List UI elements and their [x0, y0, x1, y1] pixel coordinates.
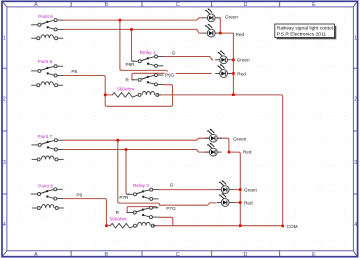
- svg-text:3: 3: [354, 160, 357, 166]
- svg-text:A: A: [34, 2, 38, 8]
- svg-text:P8: P8: [71, 69, 77, 74]
- svg-text:G: G: [170, 183, 174, 188]
- svg-text:C: C: [176, 252, 180, 258]
- svg-text:P6R: P6R: [125, 62, 135, 67]
- svg-text:D: D: [244, 2, 248, 8]
- svg-text:Relay 2: Relay 2: [133, 183, 149, 188]
- svg-text:E: E: [312, 252, 316, 258]
- svg-text:R: R: [126, 77, 130, 82]
- svg-text:E: E: [312, 2, 316, 8]
- svg-text:Green: Green: [233, 137, 246, 142]
- svg-text:4: 4: [3, 222, 6, 228]
- svg-text:Relay 1: Relay 1: [140, 50, 156, 55]
- svg-text:Red: Red: [237, 71, 246, 76]
- svg-text:1: 1: [3, 36, 6, 42]
- svg-text:P6G: P6G: [165, 72, 175, 77]
- svg-text:3: 3: [3, 160, 6, 166]
- svg-text:P7R: P7R: [119, 195, 129, 200]
- svg-text:1: 1: [354, 36, 357, 42]
- svg-text:B: B: [104, 2, 108, 8]
- svg-text:Green: Green: [237, 57, 250, 62]
- svg-text:Red: Red: [236, 32, 245, 37]
- svg-text:Point 6: Point 6: [38, 14, 53, 19]
- svg-text:A: A: [34, 252, 38, 258]
- svg-text:Red: Red: [244, 201, 253, 206]
- svg-text:G: G: [172, 50, 176, 55]
- svg-text:Green: Green: [244, 187, 257, 192]
- svg-text:2: 2: [354, 97, 357, 103]
- svg-text:2: 2: [3, 97, 6, 103]
- svg-text:P.S.R Electronics 2011: P.S.R Electronics 2011: [277, 32, 327, 38]
- svg-text:Point 7: Point 7: [38, 134, 53, 139]
- svg-text:560ohm: 560ohm: [117, 87, 134, 92]
- svg-text:Point 9: Point 9: [38, 184, 53, 189]
- svg-text:D: D: [244, 252, 248, 258]
- svg-text:B: B: [104, 252, 108, 258]
- svg-text:P7G: P7G: [166, 206, 176, 211]
- svg-text:COM: COM: [287, 224, 298, 229]
- svg-text:Red: Red: [243, 150, 252, 155]
- svg-text:Point 8: Point 8: [38, 59, 53, 64]
- svg-text:560ohm: 560ohm: [110, 216, 127, 221]
- svg-text:Railway signal light contol: Railway signal light contol: [277, 26, 333, 32]
- svg-text:P9: P9: [76, 192, 82, 197]
- svg-text:C: C: [176, 2, 180, 8]
- svg-text:Green: Green: [225, 14, 238, 19]
- svg-text:4: 4: [354, 222, 357, 228]
